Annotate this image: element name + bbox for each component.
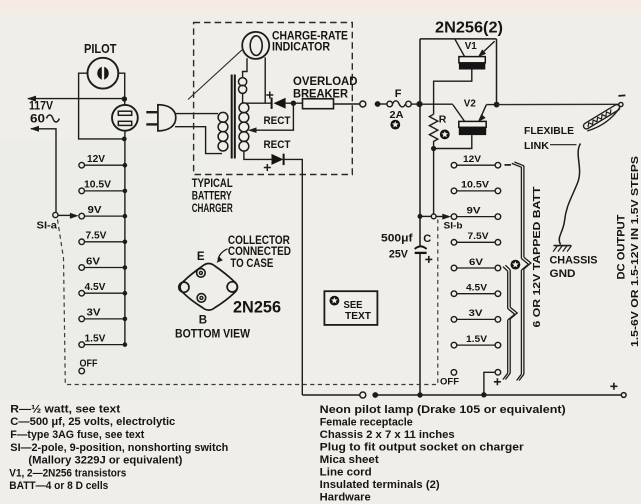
star marker R bbox=[440, 130, 450, 140]
transformer indicator winding bbox=[239, 78, 247, 94]
switch SI-a row 1.5V bbox=[79, 342, 85, 348]
svg-text:Female receptacle: Female receptacle bbox=[320, 417, 413, 429]
svg-text:FLEXIBLE: FLEXIBLE bbox=[524, 125, 574, 137]
junction dot main vertical on rail bbox=[417, 392, 422, 397]
switch SI-a row 9V bbox=[79, 213, 85, 219]
line cord plug prong top bbox=[146, 111, 158, 113]
switch SI-b pivot bbox=[431, 214, 436, 219]
svg-text:10.5V: 10.5V bbox=[84, 180, 111, 191]
svg-text:SI—2-pole, 9-position, nonshor: SI—2-pole, 9-position, nonshorting switc… bbox=[10, 442, 228, 454]
switch SI-b arm arrow bbox=[436, 216, 444, 218]
svg-text:R: R bbox=[439, 114, 447, 126]
overload breaker box bbox=[303, 99, 334, 109]
svg-text:E: E bbox=[197, 251, 205, 263]
switch SI-a row 6V bbox=[79, 265, 85, 271]
switch SI-a arm arrow bbox=[58, 214, 71, 216]
svg-text:3V: 3V bbox=[469, 308, 484, 319]
svg-text:9V: 9V bbox=[88, 205, 102, 216]
charge-rate indicator lamp bbox=[242, 32, 269, 59]
svg-text:2A: 2A bbox=[390, 109, 404, 121]
svg-text:LINK: LINK bbox=[524, 140, 549, 152]
svg-text:Line cord: Line cord bbox=[320, 467, 372, 479]
svg-text:PILOT: PILOT bbox=[84, 42, 117, 56]
socket circle bottom rail bbox=[360, 392, 366, 398]
wire pilot left lead down to bus bbox=[79, 73, 122, 139]
svg-text:7.5V: 7.5V bbox=[86, 231, 107, 242]
plug dot bottom rail bbox=[372, 392, 378, 398]
svg-text:V2: V2 bbox=[464, 97, 476, 109]
wire right vertical V1 emitter bbox=[496, 39, 498, 105]
minus mark output top bbox=[618, 94, 625, 97]
svg-text:INDICATOR: INDICATOR bbox=[272, 42, 331, 54]
svg-text:Hardware: Hardware bbox=[320, 492, 371, 504]
receptacle slot top bbox=[118, 111, 131, 115]
wire rail stub to V2 collector bbox=[421, 103, 453, 105]
switch SI-b row 10.5V bbox=[451, 188, 457, 194]
wire pilot right lead bbox=[118, 73, 124, 105]
transistor V1 emitter lead with arrow bbox=[480, 41, 495, 55]
junction dot R bottom bbox=[431, 146, 436, 151]
plus mark capacitor bbox=[425, 256, 432, 263]
transistor V2 emitter lead with arrow bbox=[480, 105, 497, 121]
callout slant line lamp to plug bbox=[188, 49, 243, 100]
svg-text:7.5V: 7.5V bbox=[468, 231, 490, 242]
dashed charger enclosure box bbox=[194, 23, 353, 175]
wire lamp left lead to winding bbox=[243, 58, 247, 103]
svg-text:6V: 6V bbox=[86, 256, 100, 267]
wire AC line 2 to SI-a bbox=[31, 129, 56, 213]
plus mark rect2 bbox=[264, 164, 271, 171]
junction dot main bbox=[416, 101, 422, 107]
svg-text:TEXT: TEXT bbox=[345, 310, 372, 322]
flexible link wire bbox=[559, 144, 580, 245]
svg-text:V1: V1 bbox=[465, 40, 477, 52]
svg-text:4.5V: 4.5V bbox=[85, 282, 106, 293]
wire cord bottom to primary bbox=[175, 127, 222, 154]
svg-text:SI-b: SI-b bbox=[444, 220, 463, 231]
transformer secondary winding bbox=[239, 103, 249, 151]
switch SI-a OFF contact bbox=[79, 368, 85, 374]
svg-text:BATTERY: BATTERY bbox=[192, 190, 232, 202]
pilot lamp electrodes bbox=[97, 67, 102, 80]
switch SI-b row 6V bbox=[451, 265, 457, 271]
wire battery plus to bottom rail bbox=[484, 372, 495, 394]
svg-text:Insulated terminals (2): Insulated terminals (2) bbox=[320, 479, 440, 491]
star marker fuse bbox=[390, 120, 400, 130]
switch SI-a row 3V bbox=[79, 316, 85, 322]
SEE TEXT box bbox=[324, 291, 377, 325]
output terminal bottom right bbox=[621, 393, 626, 398]
svg-text:B: B bbox=[199, 315, 207, 327]
wire lamp right lead bbox=[264, 57, 266, 103]
receptacle slot bottom bbox=[118, 121, 131, 125]
plus mark output bottom bbox=[610, 383, 617, 390]
svg-text:OVERLOAD: OVERLOAD bbox=[293, 76, 358, 88]
svg-text:CHASSIS: CHASSIS bbox=[550, 254, 598, 266]
svg-text:1.5-6V OR 1.5-12V IN 1.5V STEP: 1.5-6V OR 1.5-12V IN 1.5V STEPS bbox=[630, 156, 641, 347]
svg-text:TO CASE: TO CASE bbox=[230, 258, 273, 270]
switch SI-b OFF contact bbox=[451, 370, 457, 376]
svg-text:Mica sheet: Mica sheet bbox=[320, 454, 379, 466]
AC sine squiggle bbox=[47, 115, 60, 122]
pin B double circle bbox=[197, 294, 206, 303]
svg-text:RECT: RECT bbox=[264, 115, 291, 127]
wire receptacle bottom / tap bus bbox=[124, 131, 126, 344]
resistor R zigzag bbox=[429, 114, 437, 146]
wire main vertical to SI-b pivot bbox=[420, 215, 431, 217]
svg-text:25V: 25V bbox=[389, 249, 409, 261]
transistor V1 body bbox=[459, 57, 485, 63]
plug dot into socket bbox=[375, 101, 381, 107]
line cord plug body bbox=[158, 105, 176, 131]
plus mark battery bottom bbox=[494, 378, 501, 385]
plus mark rect1 bbox=[266, 92, 273, 99]
female receptacle circle bbox=[112, 105, 138, 131]
svg-text:12V: 12V bbox=[463, 154, 482, 165]
svg-text:F: F bbox=[395, 88, 402, 100]
svg-text:117V: 117V bbox=[29, 101, 53, 113]
charger output socket circle bbox=[360, 101, 366, 107]
leader LINK to clip bbox=[550, 144, 577, 146]
wire V2 base lead bbox=[436, 135, 472, 148]
junction dot diode1 bbox=[291, 101, 296, 106]
wire output rail to terminal bbox=[497, 103, 620, 105]
battery BATT left stack bbox=[503, 265, 510, 271]
switch SI-b row 4.5V bbox=[451, 291, 457, 297]
output terminal top right bbox=[619, 102, 623, 106]
bottom rail bbox=[302, 394, 360, 396]
diode RECT 1 bbox=[271, 98, 273, 109]
capacitor C bottom plate bbox=[415, 252, 427, 254]
switch SI-a row 4.5V bbox=[79, 290, 85, 296]
case mounting hole right bbox=[227, 282, 237, 292]
svg-text:10.5V: 10.5V bbox=[461, 180, 490, 191]
indicator lamp filament ellipse bbox=[250, 36, 262, 56]
wire R bottom to SI-b pivot bbox=[433, 149, 435, 215]
fuse F right circle bbox=[406, 101, 412, 107]
wire breaker to output socket bbox=[334, 103, 360, 105]
case mounting hole left bbox=[179, 282, 189, 292]
svg-text:COLLECTOR: COLLECTOR bbox=[228, 235, 291, 247]
node 117V AC feed line bbox=[28, 98, 124, 100]
junction dot battery plus on rail bbox=[481, 392, 486, 397]
wire diode1 to breaker junction bbox=[286, 102, 303, 104]
switch SI-a row 12V bbox=[79, 162, 85, 168]
svg-text:Plug to fit output socket on c: Plug to fit output socket on charger bbox=[320, 442, 525, 454]
svg-text:DC OUTPUT: DC OUTPUT bbox=[616, 214, 628, 279]
fuse F left circle bbox=[387, 101, 393, 107]
switch SI-b row 12V bbox=[451, 162, 457, 168]
svg-text:6V: 6V bbox=[469, 257, 484, 268]
svg-text:GND: GND bbox=[550, 268, 576, 280]
wire cord top to primary bbox=[176, 113, 219, 115]
junction pilot-bus dot bbox=[122, 137, 127, 142]
wire fuse to main junction bbox=[411, 103, 419, 105]
transistor 2N256 bottom view case bbox=[180, 264, 238, 311]
svg-text:CHARGER: CHARGER bbox=[192, 203, 233, 215]
svg-text:BREAKER: BREAKER bbox=[293, 89, 349, 101]
dashed gang linkage SI-a to SI-b bbox=[58, 220, 438, 385]
transistor V1 collector lead bbox=[455, 39, 465, 56]
wire rect2 down to bottom rail bbox=[284, 159, 303, 395]
battery plus contact circle bbox=[495, 370, 501, 376]
svg-text:C—500 μf, 25 volts, electrolyt: C—500 μf, 25 volts, electrolytic bbox=[10, 416, 175, 428]
svg-text:R—½ watt, see text: R—½ watt, see text bbox=[10, 403, 120, 415]
svg-text:4.5V: 4.5V bbox=[466, 283, 488, 294]
center-tap arrowhead bbox=[248, 127, 257, 133]
junction AC feed dot bbox=[122, 96, 127, 101]
junction dot emitters bbox=[494, 102, 500, 108]
star marker battery bbox=[511, 260, 521, 270]
switch SI-a pivot bbox=[53, 212, 58, 217]
capacitor C top plate bbox=[415, 246, 427, 249]
star marker see-text bbox=[330, 296, 340, 306]
diode RECT 2 bbox=[272, 154, 284, 165]
neon pilot lamp circle bbox=[88, 58, 119, 89]
switch SI-a row 7.5V bbox=[79, 239, 85, 245]
svg-text:1.5V: 1.5V bbox=[85, 333, 106, 344]
transformer T1 primary winding bbox=[218, 112, 228, 151]
svg-text:V1, 2—2N256 transistors: V1, 2—2N256 transistors bbox=[9, 467, 126, 479]
svg-text:9V: 9V bbox=[467, 205, 482, 216]
chassis ground symbol bbox=[554, 245, 572, 247]
line cord plug prong bottom bbox=[146, 123, 158, 125]
battery BATT right stack bbox=[512, 162, 524, 167]
wire plug to fuse bbox=[378, 103, 387, 105]
svg-text:Chassis 2 x 7 x 11 inches: Chassis 2 x 7 x 11 inches bbox=[320, 429, 455, 441]
svg-text:Neon pilot lamp (Drake 105 or: Neon pilot lamp (Drake 105 or equivalent… bbox=[320, 404, 566, 416]
svg-text:BATT—4 or 8 D cells: BATT—4 or 8 D cells bbox=[9, 480, 108, 492]
switch SI-b row 1.5V bbox=[451, 342, 457, 348]
wire AC line2 arrowhead bbox=[30, 126, 39, 132]
svg-text:2N256(2): 2N256(2) bbox=[435, 20, 503, 37]
svg-text:F—type 3AG fuse, see text: F—type 3AG fuse, see text bbox=[10, 429, 144, 441]
svg-text:CONNECTED: CONNECTED bbox=[228, 246, 291, 258]
wire secondary bottom lead bbox=[244, 151, 272, 160]
svg-text:500μf: 500μf bbox=[381, 233, 413, 245]
svg-text:(Mallory 3229J or equivalent): (Mallory 3229J or equivalent) bbox=[28, 455, 182, 467]
svg-text:OFF: OFF bbox=[80, 359, 98, 370]
svg-text:6 OR 12V TAPPED BATT: 6 OR 12V TAPPED BATT bbox=[531, 186, 543, 328]
wire secondary top lead bbox=[247, 102, 272, 104]
svg-text:2N256: 2N256 bbox=[233, 299, 281, 317]
transformer core bbox=[232, 75, 235, 159]
alligator clip bbox=[582, 104, 622, 134]
wire main vertical (fuse junction down to bottom rail) bbox=[419, 39, 421, 395]
svg-text:RECT: RECT bbox=[264, 139, 291, 151]
svg-text:SI-a: SI-a bbox=[37, 220, 58, 231]
fuse squiggle bbox=[393, 101, 406, 107]
wire bottom rail to output terminal bbox=[375, 394, 621, 396]
wire AC feed arrowhead bbox=[27, 96, 36, 102]
junction dot SI-b tap bbox=[418, 214, 423, 219]
switch SI-a row 10.5V bbox=[79, 188, 85, 194]
svg-text:BOTTOM VIEW: BOTTOM VIEW bbox=[175, 326, 251, 340]
svg-text:C: C bbox=[423, 233, 431, 245]
pin E double circle bbox=[197, 269, 206, 278]
svg-text:12V: 12V bbox=[87, 154, 105, 165]
wire top rail over transistors bbox=[420, 38, 497, 40]
svg-text:60: 60 bbox=[30, 114, 45, 126]
transistor V2 collector lead bbox=[453, 105, 465, 122]
wire center-tap loop bbox=[250, 103, 294, 130]
svg-text:1.5V: 1.5V bbox=[466, 334, 488, 345]
svg-text:TYPICAL: TYPICAL bbox=[192, 178, 233, 190]
switch SI-b row 7.5V bbox=[451, 240, 457, 246]
switch SI-b row 9V bbox=[451, 214, 457, 220]
wire V1 base lead bbox=[434, 70, 472, 115]
transistor V2 body bbox=[459, 121, 486, 127]
svg-text:OFF: OFF bbox=[440, 376, 459, 387]
svg-text:3V: 3V bbox=[87, 308, 101, 319]
leader arrow collector to case bbox=[218, 249, 228, 260]
switch SI-b row 3V bbox=[451, 317, 457, 323]
minus mark battery top bbox=[505, 164, 512, 166]
